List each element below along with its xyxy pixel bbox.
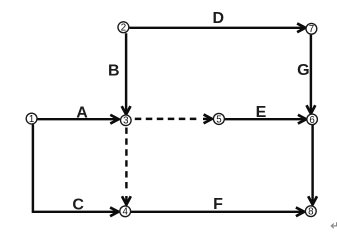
dashed dummy arrow from node 3 to node 4	[122, 128, 131, 205]
node 5	[213, 113, 224, 125]
return mark (pilcrow arrow) bottom right	[331, 222, 336, 228]
svg-text:7: 7	[309, 24, 314, 35]
wire D: activity arrow from node 2 to node 7	[130, 23, 306, 32]
wire G: activity arrow from node 7 to node 6	[307, 35, 316, 114]
svg-text:E: E	[256, 104, 267, 121]
svg-text:4: 4	[123, 207, 129, 218]
node 3	[121, 115, 132, 127]
svg-text:2: 2	[121, 23, 126, 34]
svg-text:G: G	[297, 62, 309, 79]
node 1	[26, 113, 37, 125]
svg-text:5: 5	[216, 114, 221, 125]
svg-text:6: 6	[309, 115, 314, 126]
wire A: activity arrow from node 1 to node 3	[37, 115, 118, 124]
svg-text:F: F	[213, 196, 223, 213]
svg-text:A: A	[76, 105, 88, 122]
svg-text:C: C	[72, 196, 84, 213]
wire B: activity arrow from node 2 to node 3	[122, 33, 131, 114]
node 4	[120, 206, 131, 218]
svg-text:B: B	[108, 63, 120, 80]
svg-text:D: D	[213, 10, 225, 27]
dashed dummy arrow from node 3 to node 5	[135, 115, 212, 124]
node 8	[305, 206, 316, 218]
node 7	[306, 23, 317, 35]
wire from node 6 to node 8	[308, 125, 317, 205]
wire C: elbow arrow from node 1 down and right to node 4	[33, 124, 119, 216]
svg-text:8: 8	[308, 207, 313, 218]
wire F: activity arrow from node 4 to node 8	[131, 207, 304, 216]
svg-text:3: 3	[123, 116, 128, 127]
node 6	[307, 114, 318, 126]
node 2	[118, 22, 129, 34]
svg-text:1: 1	[29, 114, 34, 125]
wire E: activity arrow from node 5 to node 6	[225, 115, 306, 124]
